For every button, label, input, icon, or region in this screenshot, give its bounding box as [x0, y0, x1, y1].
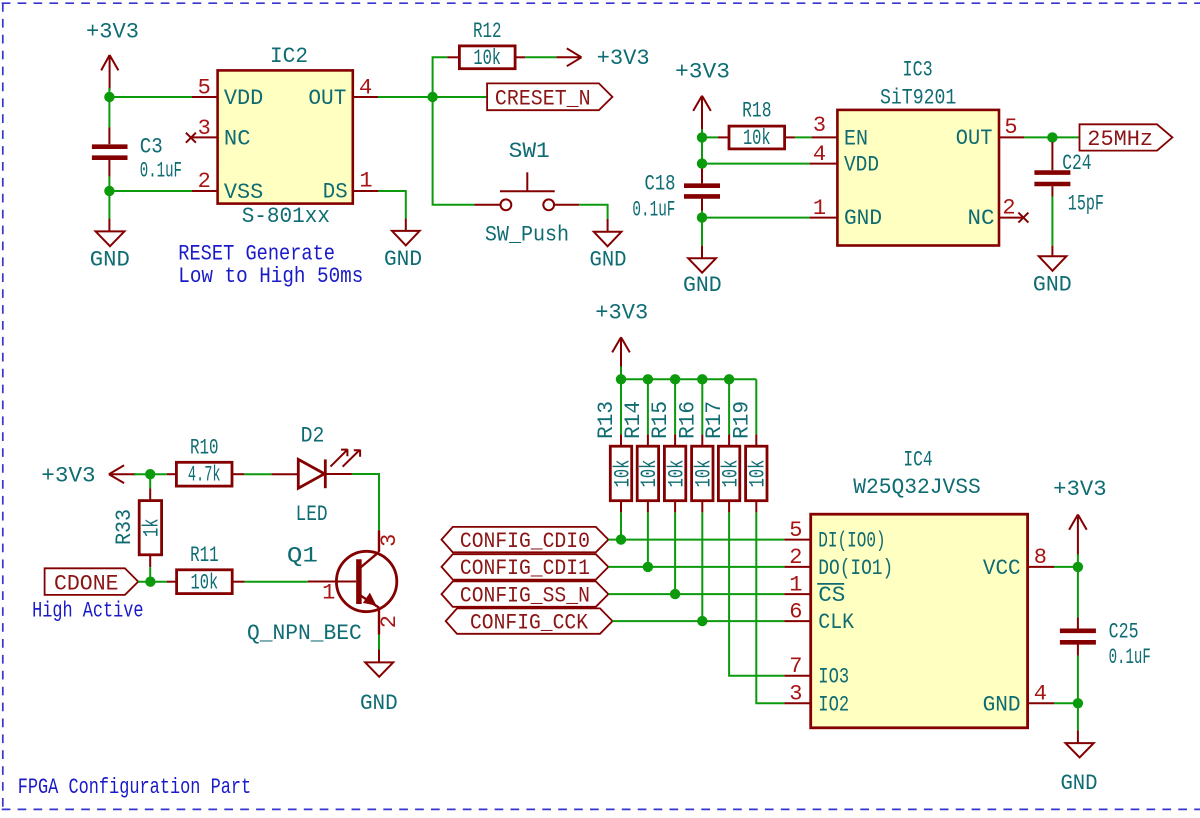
pin 5 OUT — [999, 115, 1024, 140]
junction — [643, 374, 653, 384]
wire — [149, 474, 151, 488]
wire — [525, 56, 556, 58]
svg-text:10k: 10k — [664, 460, 689, 488]
svg-text:R12: R12 — [473, 19, 502, 44]
svg-text:+3V3: +3V3 — [86, 19, 139, 44]
svg-text:10k: 10k — [637, 460, 662, 488]
pin 1 GND — [810, 196, 838, 221]
svg-text:High Active: High Active — [32, 598, 143, 623]
junction — [616, 534, 626, 544]
wire — [325, 473, 352, 475]
svg-text:15pF: 15pF — [1068, 192, 1104, 217]
junction — [145, 469, 155, 479]
wire — [433, 57, 448, 97]
wire — [608, 539, 784, 541]
svg-text:10k: 10k — [473, 46, 501, 71]
svg-text:R18: R18 — [742, 99, 771, 124]
svg-text:SiT9201: SiT9201 — [880, 86, 956, 111]
svg-text:R15: R15 — [648, 401, 673, 439]
wire — [608, 593, 784, 595]
svg-text:4: 4 — [359, 76, 372, 101]
svg-text:Q_NPN_BEC: Q_NPN_BEC — [247, 621, 362, 646]
svg-text:+3V3: +3V3 — [595, 300, 648, 325]
svg-text:EN: EN — [844, 126, 868, 151]
pin 1 CS — [784, 572, 810, 597]
wire — [149, 567, 151, 582]
svg-text:10k: 10k — [746, 460, 771, 488]
junction — [697, 374, 707, 384]
wire — [109, 96, 192, 98]
svg-text:S-801xx: S-801xx — [242, 204, 330, 229]
svg-text:25MHz: 25MHz — [1087, 127, 1153, 152]
junction — [1073, 562, 1083, 572]
ground GND D — [683, 246, 722, 298]
pin 4 OUT — [353, 76, 378, 101]
wire — [674, 512, 676, 594]
svg-text:4: 4 — [1034, 682, 1047, 707]
wire — [1052, 136, 1079, 138]
svg-text:R17: R17 — [702, 401, 727, 439]
svg-text:IC2: IC2 — [270, 44, 308, 69]
svg-text:D2: D2 — [301, 423, 325, 448]
resistor R13 — [594, 401, 635, 513]
junction — [697, 158, 707, 168]
svg-text:6: 6 — [789, 599, 802, 624]
svg-text:IC4: IC4 — [903, 447, 932, 472]
svg-text:SW1: SW1 — [509, 139, 550, 164]
IC3 body — [837, 110, 999, 246]
pin 3 NC — [192, 116, 218, 141]
wire — [1077, 554, 1079, 567]
wire — [134, 473, 150, 475]
capacitor C18 — [632, 169, 720, 223]
wire — [702, 136, 718, 138]
wire — [1024, 136, 1052, 138]
pin 5 VDD — [192, 76, 218, 101]
svg-text:VCC: VCC — [983, 556, 1021, 581]
pin 3 EN — [812, 113, 838, 138]
svg-text:7: 7 — [789, 654, 802, 679]
capacitor C24 — [1034, 142, 1104, 217]
svg-text:CONFIG_CCK: CONFIG_CCK — [470, 610, 589, 635]
wire — [620, 367, 622, 380]
junction — [145, 577, 155, 587]
global label CDONE — [45, 568, 139, 596]
junction — [1073, 698, 1083, 708]
wire — [378, 191, 405, 218]
svg-text:NC: NC — [224, 126, 251, 151]
svg-text:IO3: IO3 — [818, 665, 849, 690]
svg-text:1: 1 — [789, 572, 802, 597]
junction — [697, 132, 707, 142]
svg-text:5: 5 — [1004, 115, 1017, 140]
svg-text:NC: NC — [968, 206, 995, 231]
wire — [108, 97, 110, 127]
svg-text:+3V3: +3V3 — [675, 59, 730, 84]
svg-text:C24: C24 — [1062, 151, 1091, 176]
power +3V3 PWR2 — [556, 46, 649, 71]
svg-text:4: 4 — [813, 142, 826, 167]
pin 8 VCC — [1028, 545, 1054, 570]
power +3V3 PWR5 — [595, 300, 648, 368]
wire — [647, 512, 649, 567]
svg-text:W25Q32JVSS: W25Q32JVSS — [853, 475, 981, 500]
wire — [701, 211, 703, 218]
svg-text:3: 3 — [377, 534, 402, 547]
global label CONFIG_SS_N — [442, 581, 609, 608]
junction — [427, 92, 437, 102]
ground GND F — [360, 650, 398, 716]
svg-text:+3V3: +3V3 — [41, 463, 95, 488]
svg-text:4.7k: 4.7k — [188, 463, 221, 488]
global label CONFIG_CDI0 — [442, 527, 609, 554]
svg-text:CDONE: CDONE — [54, 571, 119, 596]
global label CONFIG_CDI1 — [442, 554, 609, 581]
SECTION: IC3 oscillator — [632, 58, 1172, 298]
pin 4 VDD — [810, 142, 838, 167]
resistor R17 — [702, 401, 743, 513]
svg-text:1: 1 — [813, 196, 826, 221]
junction — [697, 616, 707, 626]
wire — [108, 177, 110, 191]
wire — [756, 512, 784, 703]
wire — [620, 379, 622, 434]
wire — [702, 217, 810, 219]
svg-text:3: 3 — [198, 116, 211, 141]
svg-text:3: 3 — [813, 113, 826, 138]
junction — [104, 92, 114, 102]
resistor R15 — [648, 401, 689, 513]
switch SW1 — [474, 139, 579, 247]
svg-text:GND: GND — [590, 247, 627, 272]
wire — [1077, 567, 1079, 618]
svg-text:+3V3: +3V3 — [597, 46, 650, 71]
svg-text:0.1uF: 0.1uF — [632, 197, 675, 222]
pin 5 DI — [784, 518, 810, 543]
pin 3 IO2 — [784, 682, 810, 707]
wire — [608, 566, 784, 568]
power +3V3 PWR4 — [41, 463, 136, 488]
svg-text:R19: R19 — [729, 401, 754, 439]
svg-text:GND: GND — [1033, 273, 1072, 298]
ground GND E — [1033, 246, 1072, 298]
resistor R11 — [167, 543, 245, 595]
pin 2 VSS — [192, 169, 218, 194]
wire — [701, 512, 703, 621]
svg-text:10k: 10k — [743, 126, 771, 151]
resistor R16 — [675, 401, 716, 513]
wire — [108, 88, 110, 97]
wire — [579, 205, 607, 219]
svg-text:10k: 10k — [191, 570, 219, 595]
svg-text:3: 3 — [789, 682, 802, 707]
junction — [724, 374, 734, 384]
wire — [701, 129, 703, 164]
svg-text:1: 1 — [359, 169, 372, 194]
svg-text:R11: R11 — [190, 543, 219, 568]
svg-text:R33: R33 — [112, 509, 137, 545]
svg-text:CONFIG_SS_N: CONFIG_SS_N — [460, 583, 590, 608]
wire — [108, 191, 110, 219]
svg-text:RESET Generate: RESET Generate — [178, 242, 335, 267]
wire — [378, 96, 433, 98]
svg-text:CONFIG_CDI0: CONFIG_CDI0 — [460, 529, 590, 554]
wire — [433, 96, 488, 98]
svg-text:CONFIG_CDI1: CONFIG_CDI1 — [460, 556, 590, 581]
pin 2 NC — [999, 196, 1023, 221]
wire — [1051, 197, 1053, 246]
svg-text:GND: GND — [90, 247, 130, 272]
svg-text:8: 8 — [1034, 545, 1047, 570]
wire — [728, 379, 730, 434]
svg-text:1: 1 — [322, 580, 335, 605]
svg-text:C3: C3 — [140, 134, 163, 159]
SECTION: IC2 reset generator — [86, 19, 650, 289]
junction — [1047, 132, 1057, 142]
wire — [138, 581, 167, 583]
svg-text:CS: CS — [818, 583, 845, 608]
no-connect X — [1018, 213, 1028, 223]
wire — [729, 512, 784, 675]
svg-text:2: 2 — [377, 615, 402, 628]
IC4 body — [811, 514, 1028, 728]
wire — [244, 473, 271, 475]
svg-text:VDD: VDD — [844, 153, 879, 178]
svg-text:GND: GND — [384, 247, 422, 272]
svg-text:R14: R14 — [621, 401, 646, 439]
svg-text:DS: DS — [323, 180, 348, 205]
svg-text:GND: GND — [683, 273, 722, 298]
svg-text:CLK: CLK — [818, 610, 855, 635]
svg-text:DI(IO0): DI(IO0) — [818, 529, 885, 554]
ground GND G — [1060, 730, 1097, 796]
wire — [620, 512, 622, 539]
wire — [109, 190, 192, 192]
resistor R14 — [621, 401, 662, 513]
resistor R10 — [167, 435, 245, 487]
ground GND B — [590, 219, 627, 272]
resistor R12 — [447, 19, 525, 71]
wire — [755, 379, 757, 434]
svg-text:LED: LED — [296, 502, 328, 527]
wire — [245, 581, 308, 583]
pin name CS with overline — [817, 583, 845, 608]
svg-text:C18: C18 — [645, 171, 676, 196]
wire — [1054, 702, 1078, 704]
ground GND A — [90, 219, 130, 273]
wire — [1077, 703, 1079, 730]
svg-text:C25: C25 — [1109, 620, 1139, 645]
svg-text:OUT: OUT — [956, 126, 993, 151]
SECTION: Q1 LED driver — [32, 423, 402, 716]
svg-text:1k: 1k — [140, 518, 165, 537]
wire — [701, 218, 703, 246]
svg-text:0.1uF: 0.1uF — [1109, 645, 1151, 670]
svg-text:+3V3: +3V3 — [1053, 477, 1107, 502]
wire — [150, 473, 167, 475]
junction — [670, 374, 680, 384]
wire — [613, 620, 785, 622]
junction — [643, 562, 653, 572]
power +3V3 PWR6 — [1053, 477, 1107, 556]
wire — [378, 635, 380, 650]
wire — [647, 379, 649, 434]
wire — [701, 379, 703, 434]
svg-text:R16: R16 — [675, 401, 700, 439]
resistor R33 — [112, 489, 165, 568]
svg-text:10k: 10k — [610, 460, 635, 488]
svg-text:2: 2 — [198, 169, 211, 194]
svg-text:GND: GND — [844, 206, 882, 231]
LED D2 — [296, 423, 361, 527]
junction — [670, 589, 680, 599]
resistor R19 — [729, 401, 770, 513]
svg-text:5: 5 — [789, 518, 802, 543]
wire — [1077, 656, 1079, 704]
svg-text:IO2: IO2 — [818, 692, 849, 717]
svg-text:VDD: VDD — [224, 86, 263, 111]
svg-text:Q1: Q1 — [287, 544, 318, 569]
SECTION: IC4 flash — [442, 300, 1151, 796]
svg-text:Low to High 50ms: Low to High 50ms — [178, 264, 363, 289]
global label CRESET_N — [487, 83, 612, 111]
junction — [697, 212, 707, 222]
global label 25MHz — [1080, 124, 1173, 152]
svg-text:10k: 10k — [692, 460, 717, 488]
wire — [1054, 566, 1078, 568]
svg-text:10k: 10k — [718, 460, 743, 488]
svg-text:IC3: IC3 — [903, 58, 933, 83]
ground GND C — [384, 218, 422, 272]
IC2 body — [218, 70, 353, 203]
pin 6 CLK — [784, 599, 810, 624]
resistor R18 — [718, 99, 795, 152]
svg-text:SW_Push: SW_Push — [485, 222, 569, 247]
pin 2 DO — [784, 545, 810, 570]
svg-text:2: 2 — [789, 545, 802, 570]
transistor Q1 — [247, 530, 402, 646]
capacitor C3 — [92, 127, 182, 183]
svg-text:0.1uF: 0.1uF — [140, 158, 182, 183]
pin 4 GND — [1028, 682, 1054, 707]
no-connect X — [186, 133, 196, 143]
svg-text:GND: GND — [1060, 771, 1097, 796]
svg-text:OUT: OUT — [308, 86, 346, 111]
pin 7 IO3 — [784, 654, 810, 679]
wire — [433, 97, 475, 205]
capacitor C25 — [1060, 618, 1151, 670]
svg-text:2: 2 — [1002, 196, 1015, 221]
svg-text:DO(IO1): DO(IO1) — [818, 556, 893, 581]
wire — [702, 163, 810, 165]
pin 1 DS — [353, 169, 379, 194]
wire — [674, 379, 676, 434]
wire rail — [621, 378, 756, 380]
svg-text:R13: R13 — [594, 401, 619, 439]
svg-text:CRESET_N: CRESET_N — [495, 86, 591, 111]
svg-text:GND: GND — [983, 692, 1021, 717]
svg-text:GND: GND — [360, 691, 398, 716]
junction — [616, 374, 626, 384]
svg-text:FPGA Configuration Part: FPGA Configuration Part — [18, 775, 252, 800]
power +3V3 PWR1 — [86, 19, 139, 90]
svg-text:5: 5 — [198, 76, 211, 101]
wire — [795, 136, 812, 138]
power +3V3 PWR3 — [675, 59, 730, 131]
svg-text:VSS: VSS — [224, 180, 263, 205]
global label CONFIG_CCK — [446, 608, 613, 635]
svg-text:R10: R10 — [190, 435, 219, 460]
junction — [104, 186, 114, 196]
